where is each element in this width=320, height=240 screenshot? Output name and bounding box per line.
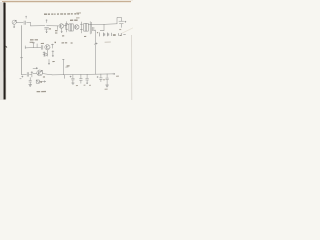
left dark binding band: [3, 3, 5, 100]
diode D1: [36, 80, 39, 83]
label R5 .5M row1: [30, 39, 38, 41]
wire to C2: [31, 25, 45, 27]
cap C9 to ground: [29, 78, 32, 85]
label R10: [67, 65, 70, 67]
hanger small x64: [64, 75, 66, 78]
capacitor C7: [41, 45, 43, 49]
microphone M1: [12, 20, 16, 24]
resistor R5 vertical: [32, 43, 34, 48]
long shield wire left: [20, 26, 22, 75]
hanger C10: [72, 75, 75, 83]
label uit: [116, 75, 119, 77]
label 25: [89, 84, 91, 86]
label 1k under R2: [62, 35, 64, 37]
component label smudges: [30, 20, 122, 91]
resistor R1 drop: [56, 26, 58, 30]
C1 label tick: [26, 16, 27, 18]
hanger C12: [86, 75, 89, 85]
element X1: [31, 71, 33, 77]
row2 input tick: [24, 46, 26, 49]
long wire center down: [94, 30, 96, 74]
title text smudge: [44, 13, 79, 15]
vertical feeder x63: [62, 59, 64, 74]
junction drop x104: [103, 24, 105, 30]
label LS: [84, 35, 86, 37]
capacitor C2 vertical: [45, 27, 49, 29]
wire to T4: [33, 72, 37, 74]
vertical arrow wire: [48, 59, 49, 64]
resistor R7: [43, 52, 45, 57]
battery row: [98, 33, 100, 37]
label arrow near x66: [66, 66, 69, 68]
label row2: [30, 41, 34, 43]
arrow mid-left: [33, 68, 38, 69]
label 5n: [76, 85, 78, 87]
hanger C13: [100, 74, 103, 82]
transformer TR2 box: [84, 24, 89, 32]
bottom-left wire corner: [22, 74, 27, 76]
label a04: [41, 42, 44, 44]
hanger C11: [80, 75, 83, 84]
label R9: [52, 61, 54, 63]
label plus battery: [97, 32, 98, 33]
wire R2 to transformer: [67, 24, 69, 26]
C2 top tick: [46, 20, 47, 23]
wire T1 to R2: [64, 24, 67, 26]
capacitor C5 small: [93, 27, 94, 31]
marks right of R7: [52, 51, 54, 57]
T3 right element: [51, 44, 53, 48]
secondary line: [89, 22, 91, 34]
label 1n: [103, 79, 105, 81]
ground G2: [106, 85, 109, 87]
electrolytic C6: [119, 21, 124, 24]
T1 emitter arrow down: [61, 29, 62, 33]
plus mark right: [97, 76, 98, 77]
binding tick: [6, 46, 8, 48]
page background: [0, 0, 133, 100]
wire to element: [30, 73, 32, 75]
right crease: [122, 28, 133, 33]
label TR904: [70, 19, 78, 21]
wire right corner up: [117, 17, 121, 23]
label R1 / 1k: [55, 31, 58, 33]
wire T4 to rail: [43, 74, 52, 75]
bottom rail: [52, 74, 113, 75]
label 2: [55, 41, 56, 43]
row2 wire: [25, 46, 41, 49]
connector: [94, 29, 95, 31]
transistor T2: [74, 25, 79, 30]
label T4: [43, 76, 45, 78]
label 50u: [105, 88, 108, 90]
capacitor C8: [27, 72, 29, 76]
resistor R2 vertical: [65, 22, 67, 32]
transistor T1: [59, 24, 64, 29]
label 6F: [120, 34, 122, 36]
left gutter shading: [0, 2, 4, 100]
mic arrow down: [13, 25, 14, 28]
ground G1: [29, 85, 32, 87]
capacitor C1: [24, 21, 26, 25]
small circle bottom: [44, 53, 47, 56]
title text part2: [76, 13, 81, 18]
label A: [40, 81, 42, 83]
label 1k right: [71, 42, 73, 44]
top wire to right: [88, 23, 117, 26]
transformer TR1 box: [69, 24, 73, 31]
transistor T4: [37, 70, 43, 76]
label T2-04: [62, 42, 68, 44]
label 5u: [49, 28, 51, 30]
secondary line 2: [91, 22, 93, 33]
resistor R6 vertical: [36, 44, 38, 48]
wire mic to C1: [16, 22, 23, 24]
plus mark center: [94, 43, 97, 45]
hanger C14 + ground: [106, 74, 109, 85]
label batterij: [105, 41, 111, 43]
wire corner down: [30, 23, 32, 26]
junction tick on shield wire: [20, 57, 23, 59]
T3 emitter down: [46, 50, 48, 56]
transistor T3: [45, 45, 50, 50]
wire C2 to T1: [47, 25, 59, 27]
resistor R3 vertical: [80, 22, 82, 33]
label 9V: [113, 34, 116, 36]
plus marks left: [20, 76, 23, 79]
top page edge line: [2, 0, 131, 2]
wire C1 to corner: [27, 22, 31, 24]
right page edge: [131, 35, 133, 100]
plus mark C6: [125, 21, 127, 22]
label 50: [119, 29, 121, 31]
label 10: [84, 84, 86, 86]
rail end terminal: [113, 73, 115, 74]
caption Fig: [37, 91, 46, 93]
arrow right from D1: [40, 81, 46, 82]
